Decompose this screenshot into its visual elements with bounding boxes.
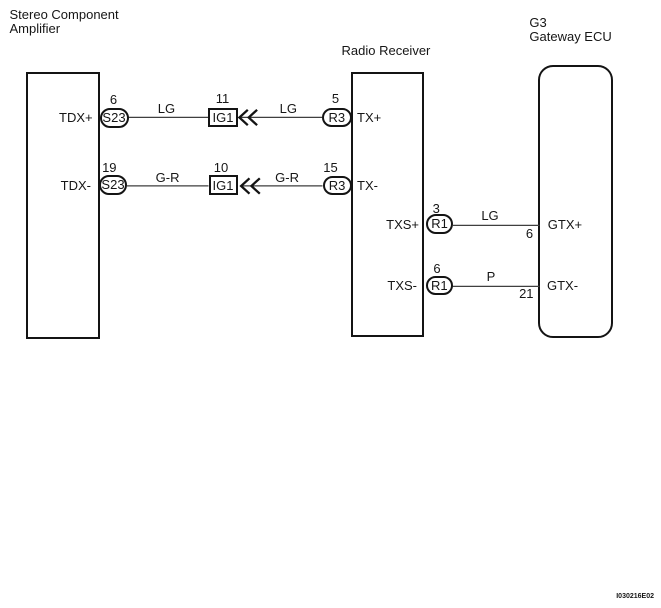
G3 gateway ECU label bbox=[529, 16, 611, 44]
terminal TDX- bbox=[61, 179, 91, 193]
junction connector IG1 (row 1) bbox=[208, 108, 238, 127]
stereo component amplifier label bbox=[10, 8, 119, 36]
wire G-R from S23 to IG1 (row 2) bbox=[127, 185, 209, 187]
wire color label G-R (row 2, right) bbox=[272, 171, 302, 185]
pin 19 of S23 row 2 bbox=[99, 161, 119, 175]
pin 10 of IG1 row 2 bbox=[211, 161, 231, 175]
terminal TXS+ bbox=[386, 218, 419, 232]
wire LG from junction IG1 to R3 (row 1) bbox=[240, 116, 323, 118]
pin 6 of R1 row 4 bbox=[427, 262, 447, 276]
wire color label LG (row 1, left) bbox=[151, 102, 181, 116]
figure ID I030216E02 bbox=[616, 593, 654, 600]
pin 11 of IG1 row 1 bbox=[213, 92, 233, 106]
connector R1 (TXS+, row 3) bbox=[426, 214, 453, 233]
wire color label P (row 4) bbox=[476, 270, 506, 284]
wire color label LG (row 3) bbox=[475, 209, 505, 223]
pin 3 of R1 row 3 bbox=[426, 202, 446, 216]
terminal TX- bbox=[357, 179, 378, 193]
wire G-R from junction IG1 to R3 (row 2) bbox=[241, 185, 323, 187]
wire LG from R1 to GTX+ (row 3) bbox=[453, 224, 540, 226]
pin 6 of GTX+ (gateway side) bbox=[520, 227, 540, 241]
terminal GTX- bbox=[547, 279, 578, 293]
pin 5 of R3 row 1 bbox=[326, 92, 346, 106]
radio receiver box bbox=[351, 72, 424, 337]
junction double-chevron row 2 bbox=[241, 178, 260, 193]
junction double-chevron row 1 bbox=[239, 110, 257, 125]
radio receiver label bbox=[342, 44, 431, 58]
pin 15 of R3 row 2 bbox=[321, 161, 341, 175]
G3 gateway ECU box bbox=[538, 65, 613, 339]
pin 21 of GTX- (gateway side) bbox=[516, 287, 536, 301]
pin 6 of S23 row 1 bbox=[104, 93, 124, 107]
connector R1 (TXS-, row 4) bbox=[426, 276, 453, 295]
connector R3 (TX-, row 2) bbox=[323, 176, 352, 196]
terminal TX+ bbox=[357, 111, 381, 125]
terminal TDX+ bbox=[59, 111, 93, 125]
terminal GTX+ bbox=[548, 218, 582, 232]
connector S23 (TDX+, row 1) bbox=[100, 108, 129, 128]
connector S23 (TDX-, row 2) bbox=[99, 175, 127, 195]
wire color label G-R (row 2, left) bbox=[153, 171, 183, 185]
junction connector IG1 (row 2) bbox=[209, 175, 238, 195]
stereo component amplifier box bbox=[26, 72, 100, 339]
wire color label LG (row 1, right) bbox=[273, 102, 303, 116]
wire P from R1 to GTX- (row 4) bbox=[452, 285, 540, 287]
terminal TXS- bbox=[387, 279, 417, 293]
connector R3 (TX+, row 1) bbox=[322, 108, 352, 127]
